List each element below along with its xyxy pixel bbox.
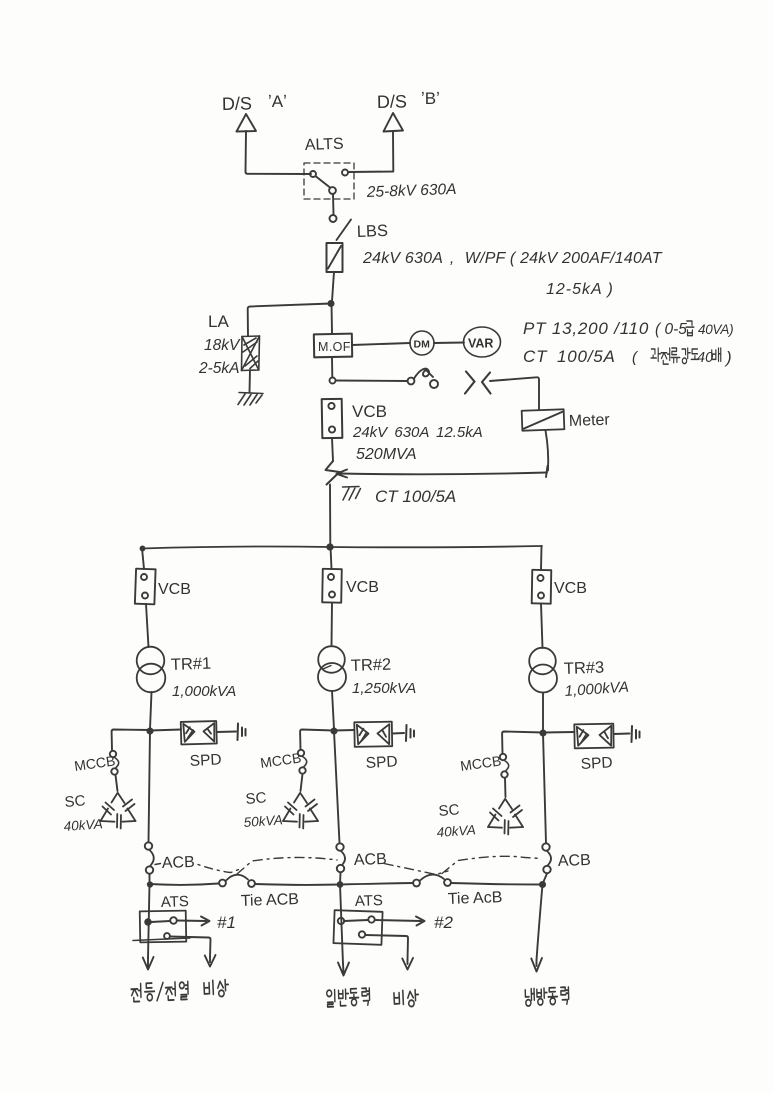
transformer TR3 [529,648,556,675]
wire tap to disconnect [336,380,408,383]
svg-text:TR#1: TR#1 [171,655,212,674]
svg-text:#1: #1 [217,913,236,932]
return wire tick [546,466,548,477]
wire feeder3 to load [537,885,543,961]
wire LA to ground [249,370,252,392]
wire SPD2 to ground [393,732,405,735]
svg-text:MCCB: MCCB [459,752,502,774]
node D/S 'B' label [377,89,440,112]
ACB2 breaker [336,843,343,850]
svg-text:#2: #2 [434,913,453,932]
ALTS left contact [310,171,316,177]
interlock dash-dot line 4 [442,856,541,873]
svg-text:LA: LA [208,312,229,331]
svg-text:24kV 630A 12.5kA: 24kV 630A 12.5kA [352,424,483,441]
svg-text:DM: DM [414,339,431,351]
feeder2 breaker VCB [322,569,342,603]
wire VCB1 to TR1 [146,604,149,647]
transformer TR1 [137,647,165,675]
wire VCB3 to TR3 [541,604,543,649]
svg-text:1,250kVA: 1,250kVA [352,680,416,697]
wire MOF to DM [352,343,410,345]
svg-text:CT 100/5A: CT 100/5A [523,347,616,366]
distribution bus wire [142,546,542,549]
wire junction2 to SPD2 [334,729,354,732]
incoming source B triangle [384,113,404,132]
ATS1 contact 2 [164,933,170,939]
wire feeder2 through ATS2 [340,885,343,965]
svg-text:24kV 630A , W/PF ( 24kV 200: 24kV 630A , W/PF ( 24kV 200AF/140AT [362,250,663,267]
ACB3 breaker [542,843,549,850]
ATS1 contact 1 [151,921,170,922]
wire MCCB1 to SC1 [116,775,118,791]
svg-text:ʼBʼ: ʼBʼ [421,89,440,108]
Tie ACB 2 blade [420,875,444,881]
Tie ACB 1 right contact [248,880,255,887]
tie bus segment 1 [150,884,219,885]
svg-text:( 0-5: ( 0-5 [655,321,687,338]
wire junction3 to SPD3 [543,731,574,734]
SPD2 surge protector [354,722,392,747]
svg-text:CT 100/5A: CT 100/5A [375,487,456,506]
Meter box [522,409,565,430]
ALTS right contact [342,170,348,176]
meter VAR [464,327,501,357]
MOF metering outfit box [314,334,352,358]
svg-text:40VA): 40VA) [698,322,733,337]
wire feeder2 main down to ACB2 [334,731,340,843]
wire feeder1 through ATS1 [148,884,150,958]
svg-text:40kVA: 40kVA [436,822,476,840]
label gwajeonryu-gangdo (overcurrent strength) in CT line [651,348,699,364]
MCCB3 switch [500,754,506,760]
svg-text:D/S: D/S [377,91,407,112]
load arrow feeder2 [338,963,349,976]
wire SPD3 to ground [614,733,630,736]
svg-text:PT 13,200 /110: PT 13,200 /110 [523,319,649,338]
svg-text:ACB: ACB [354,851,387,869]
feeder1 breaker VCB [135,569,156,605]
tie bus segment 2 [255,883,340,886]
ATS1 source #1 arrow [177,917,210,926]
ALTS blade [316,177,330,188]
SC3 capacitor delta [488,799,523,835]
wire junction1 to MCCB1 [112,730,150,751]
SPD1 surge protector [181,721,217,744]
ATS1 common node [145,919,151,925]
svg-text:VCB: VCB [346,579,379,596]
label bisang (emergency) feeder1 [204,979,229,997]
Tie ACB 2 right contact [444,879,451,886]
LBS blade [337,220,352,241]
wire MCCB2 to SC2 [301,774,303,791]
wire bus to feeder3 [540,546,543,570]
wire junction2 to MCCB2 [300,730,334,750]
svg-text:Meter: Meter [569,412,611,430]
svg-text:VCB: VCB [554,580,587,597]
ground for LA [238,393,263,406]
LBS fuse body [327,243,343,272]
svg-text:SPD: SPD [365,753,398,772]
svg-text:Tie AcB: Tie AcB [448,889,503,908]
ALTS common contact [329,187,336,194]
svg-text:SC: SC [438,801,460,820]
wire TR3 down [542,693,544,732]
label geup (grade) in PT line [686,321,694,336]
wire junction to MOF [331,303,334,333]
svg-text:ATS: ATS [355,892,384,910]
svg-text:SC: SC [64,792,86,811]
metering tap contact circle [330,378,336,384]
wire junction3 to MCCB3 [502,732,543,754]
wire junction1 to SPD1 [150,730,181,731]
ATS2 contact 1 [344,920,368,921]
svg-text:MCCB: MCCB [73,752,116,774]
svg-text:2-5kA: 2-5kA [198,360,240,377]
ATS2 box [333,910,382,945]
disconnect blade with curl [414,369,433,379]
main bus junction [327,544,332,549]
wire from A down and to ALTS [246,131,312,174]
svg-text:Tie ACB: Tie ACB [241,891,300,910]
ATS2 contact 2 [359,931,365,937]
wire bus to feeder1 [142,548,144,569]
node D/S 'A' label [222,92,287,114]
interlock dash-dot line 1 [198,865,240,873]
wire LBS to junction [332,272,334,301]
svg-text:1,000kVA: 1,000kVA [564,679,629,700]
svg-text:ALTS: ALTS [305,136,344,154]
svg-text:520MVA: 520MVA [356,446,416,463]
svg-text:1,000kVA: 1,000kVA [172,683,236,700]
SC1 capacitor delta [101,793,136,829]
Tie ACB 1 left contact [219,880,226,887]
wire VCB2 to TR2 [331,603,334,646]
load arrow feeder1 [143,957,154,970]
svg-text:(: ( [632,349,639,366]
ATS1 box [140,911,187,943]
SPD3 ground [632,726,640,742]
interlock dash-dot line 2 [237,857,337,874]
tie bus segment 3 [340,883,413,885]
svg-text:): ) [724,348,732,367]
svg-text:ʼAʼ: ʼAʼ [268,92,287,111]
ATS2 common node [338,918,344,924]
incoming source A triangle [237,114,257,132]
transformer TR2 [318,646,345,673]
svg-text:40kVA: 40kVA [63,816,103,834]
ALTS dashed enclosure [304,163,354,199]
label naengbang-dongryeok (HVAC power) [525,987,569,1006]
wire feeder1 main down to ACB1 [149,731,151,842]
label ilban-dongryeok (general power) [327,988,370,1007]
load arrow feeder3 [531,958,542,972]
wire meter down and back to CT [546,431,549,471]
interlock dash-dot line 3 [384,864,448,875]
ATS2 source #2 arrow [375,917,425,926]
svg-text:MCCB: MCCB [259,749,302,771]
CT zigzag on main line [326,461,340,485]
SPD3 surge protector [574,724,613,749]
svg-text:50kVA: 50kVA [243,812,283,830]
return wire arrow end [337,470,348,478]
ATS1 box bottom overshoot [133,938,190,941]
ACB1 breaker [145,842,152,849]
meter DM [410,331,434,355]
wire DM to VAR [434,342,464,345]
label bisang (emergency) feeder2 [394,989,419,1007]
svg-text:D/S: D/S [222,93,252,114]
emergency arrow feeder1 [205,955,216,967]
svg-text:ACB: ACB [558,852,591,870]
feeder2 branch junction [331,728,336,733]
wire feeder3 main down to ACB3 [543,733,546,843]
svg-text:VCB: VCB [352,402,387,421]
svg-text:SPD: SPD [580,754,613,773]
svg-text:VAR: VAR [468,337,493,351]
wire ALTS to LBS [332,194,335,214]
Tie ACB 1 blade [226,875,248,881]
svg-text:18kV: 18kV [204,337,241,354]
LBS upper contact [330,215,337,222]
wire ACB1 to tie bus [149,874,151,884]
SPD1 ground [238,724,246,741]
svg-text:LBS: LBS [357,222,389,241]
emergency arrow feeder2 [402,958,413,970]
label jeondeung/jeonyeol (lighting/heating) [131,981,188,1001]
label bae (times) in CT line [712,348,721,361]
MCCB2 switch [298,750,304,756]
disconnect contact [408,378,415,385]
SPD2 ground [406,725,414,741]
SC2 capacitor delta [283,793,318,829]
svg-text:12-5kA ): 12-5kA ) [546,281,614,298]
wire VCB down [332,438,333,461]
wire TR1 down [150,692,152,729]
svg-text:TR#3: TR#3 [564,659,605,678]
feeder3 branch junction [540,730,545,735]
MCCB1 switch [110,751,116,757]
LA lightning arrester [242,336,260,371]
interlock dash stub left of ACB1 [155,864,161,865]
disconnecting link chevrons [465,372,491,394]
wire ACB3 to tie bus [543,874,548,885]
wire CT to bus [329,485,331,547]
wire from B down and to ALTS [349,131,393,172]
svg-text:ATS: ATS [161,893,190,911]
wire SPD1 to ground [217,731,236,734]
wire MCCB3 to SC3 [504,778,507,797]
tie bus segment 4 [451,883,542,885]
wire ACB2 to tie bus [339,873,342,885]
svg-text:SC: SC [245,789,267,808]
svg-text:VCB: VCB [158,581,191,598]
feeder1 branch junction [147,728,152,733]
feeder3 breaker VCB [532,570,552,604]
junction node to LA branch [328,301,333,306]
Tie ACB 2 left contact [413,880,420,887]
wire bus to feeder2 (main continues) [331,547,332,569]
svg-text:25-8kV 630A: 25-8kV 630A [366,181,457,201]
label CT ratio [523,347,732,367]
wire TR2 down [332,691,334,729]
wire chevrons to meter [490,377,539,409]
wire to LA arrester [248,304,331,337]
wire MOF down [331,357,333,377]
svg-text:ACB: ACB [162,854,195,872]
svg-text:40: 40 [697,350,713,366]
circuit breaker VCB main body [322,399,343,438]
CT secondary hatch mark [343,487,361,501]
svg-text:TR#2: TR#2 [351,656,392,675]
label PT ratio [523,319,733,338]
svg-text:SPD: SPD [189,751,222,770]
svg-text:M.OF: M.OF [318,340,351,354]
